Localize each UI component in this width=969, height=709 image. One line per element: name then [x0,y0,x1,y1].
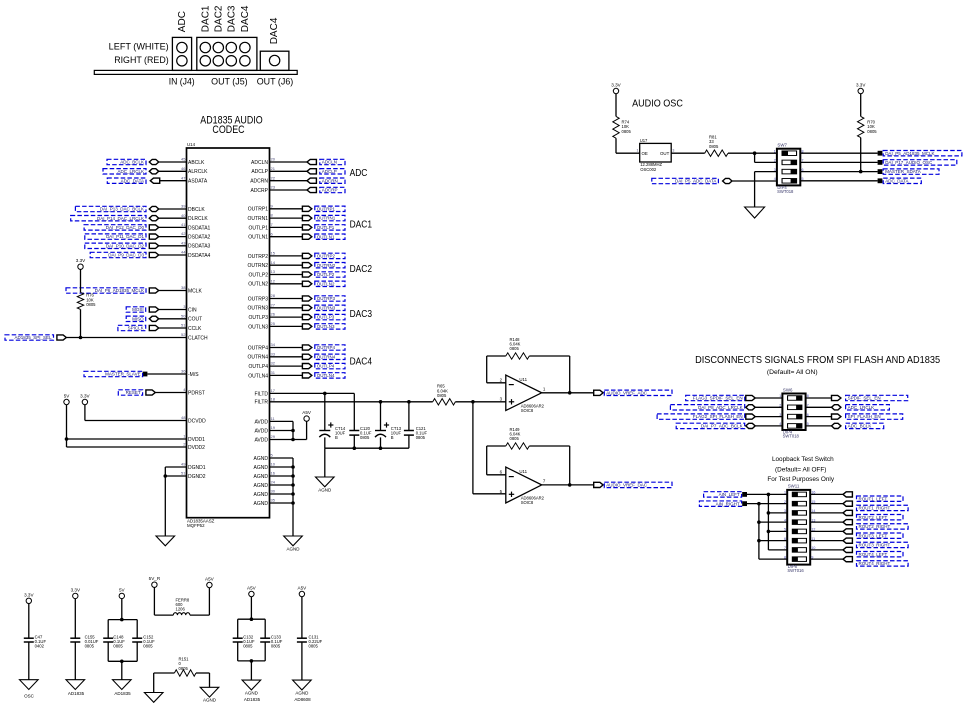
svg-text:OUTRP1: OUTRP1 [248,207,269,213]
svg-text:39: 39 [181,204,186,209]
svg-text:B: B [335,435,338,440]
svg-text:DAC1: DAC1 [350,219,373,230]
svg-text:OUTRP1: OUTRP1 [317,206,336,211]
svg-text:AVDD: AVDD [254,437,268,443]
svg-text:A5V: A5V [298,586,308,591]
svg-text:MOSI: MOSI [132,307,144,312]
svg-text:DAI_P8_ADC_LRCLK: DAI_P8_ADC_LRCLK [698,405,743,410]
svg-text:-M/S: -M/S [188,372,199,378]
svg-text:DLRCLK: DLRCLK [188,216,208,222]
svg-text:5V_R: 5V_R [149,576,161,581]
svg-text:29: 29 [271,434,276,439]
svg-text:DAI_P10_DAC_D2: DAI_P10_DAC_D2 [106,243,145,248]
svg-text:AD1835: AD1835 [68,691,85,696]
svg-text:DAI_P13_DAC_BCLK: DAI_P13_DAC_BCLK [100,207,144,212]
svg-text:ADC: ADC [177,11,188,32]
svg-text:AVDD: AVDD [254,419,268,425]
svg-text:U17: U17 [640,138,648,143]
svg-text:OSC: OSC [24,694,35,699]
svg-text:AD8608: AD8608 [294,697,311,702]
svg-text:OUT: OUT [660,151,670,156]
svg-text:AD1835: AD1835 [244,697,261,702]
svg-text:SWT018: SWT018 [777,189,794,194]
svg-text:3: 3 [672,148,674,152]
svg-text:IN (J4): IN (J4) [169,77,195,87]
svg-text:25: 25 [271,321,276,326]
svg-text:ADCLN: ADCLN [251,160,268,166]
svg-text:ADCLN: ADCLN [322,160,337,165]
svg-text:SOIC8: SOIC8 [521,408,534,413]
svg-text:OUTLN2: OUTLN2 [317,281,335,286]
svg-text:OUTLN1: OUTLN1 [248,235,268,241]
svg-text:DAC3: DAC3 [350,309,373,320]
svg-text:12: 12 [271,278,276,283]
svg-text:DISCONNECTS SIGNALS FROM SPI F: DISCONNECTS SIGNALS FROM SPI FLASH AND A… [695,354,940,366]
svg-text:DAC2: DAC2 [350,264,373,275]
svg-text:OUT (J5): OUT (J5) [211,77,248,87]
svg-text:40: 40 [181,213,186,218]
svg-text:DBCLK: DBCLK [188,207,205,213]
svg-text:0805: 0805 [271,644,281,649]
svg-text:AD1835: AD1835 [114,691,131,696]
svg-text:ROUT1_RIGHT: ROUT1_RIGHT [859,506,891,511]
svg-text:DAI_P11_DAC_D1: DAI_P11_DAC_D1 [106,234,144,239]
svg-text:OUTRN2: OUTRN2 [317,263,336,268]
svg-text:OUTRP2: OUTRP2 [248,254,269,260]
svg-text:DAC4: DAC4 [350,357,373,368]
svg-text:49: 49 [181,462,186,467]
svg-text:AGND: AGND [245,691,259,696]
svg-text:OUTLN3: OUTLN3 [248,324,268,330]
svg-text:18: 18 [271,396,276,401]
svg-text:MASTER_SLAVE: MASTER_SLAVE [105,372,140,377]
svg-text:0805: 0805 [179,666,189,671]
svg-text:OUTRN4: OUTRN4 [247,355,268,361]
svg-text:ADC_DATA: ADC_DATA [121,178,144,183]
svg-text:27: 27 [271,302,276,307]
svg-text:3.3V: 3.3V [24,592,34,597]
svg-text:44: 44 [181,250,186,255]
svg-text:CLATCH: CLATCH [188,335,208,341]
svg-text:0805: 0805 [86,302,96,307]
svg-text:DSDATA1: DSDATA1 [188,225,211,231]
svg-text:52: 52 [181,332,186,337]
svg-text:AUDIO_VREF_DAC: AUDIO_VREF_DAC [606,483,648,488]
svg-text:0805: 0805 [85,644,95,649]
svg-text:ADCLP: ADCLP [322,169,337,174]
svg-text:For Test Purposes Only: For Test Purposes Only [767,476,834,483]
svg-text:OUTRP4: OUTRP4 [317,345,336,350]
svg-text:SW6: SW6 [783,387,793,392]
svg-text:3.3V: 3.3V [80,394,90,399]
svg-text:16: 16 [271,471,276,476]
svg-text:AGND: AGND [254,456,269,462]
svg-text:OUTRN1: OUTRN1 [317,216,336,221]
svg-text:1: 1 [637,148,639,152]
svg-text:AGND: AGND [254,465,269,471]
svg-text:0805: 0805 [709,144,719,149]
svg-text:AGND: AGND [254,492,269,498]
svg-text:0805: 0805 [309,644,319,649]
svg-text:CCLK: CCLK [188,326,202,332]
svg-text:0805: 0805 [510,436,520,441]
svg-text:DAC1: DAC1 [201,5,212,32]
svg-text:23: 23 [271,185,276,190]
svg-text:(Default= All OFF): (Default= All OFF) [775,467,826,474]
svg-text:ABCLK: ABCLK [188,160,205,166]
svg-text:46: 46 [181,166,186,171]
svg-text:OUTLN4: OUTLN4 [317,373,335,378]
svg-text:2: 2 [774,159,776,163]
svg-text:SOIC8: SOIC8 [521,500,534,505]
svg-text:ADC: ADC [350,168,368,179]
svg-text:CODEC: CODEC [212,124,244,136]
svg-text:DAC3: DAC3 [227,5,238,32]
svg-text:38: 38 [181,285,186,290]
svg-text:SPI_FLASH_EN: SPI_FLASH_EN [848,414,881,419]
svg-text:ADCRN: ADCRN [322,178,338,183]
svg-text:0402: 0402 [35,644,45,649]
svg-text:ADC_BCLK: ADC_BCLK [120,160,144,165]
svg-text:AUDIO OSC: AUDIO OSC [632,97,683,109]
svg-text:AD1835_SPI_SEL: AD1835_SPI_SEL [14,335,52,340]
svg-text:26: 26 [271,312,276,317]
svg-text:14: 14 [271,260,276,265]
svg-text:33: 33 [271,351,276,356]
svg-text:OUTLP2: OUTLP2 [317,272,335,277]
svg-text:OUTLP1: OUTLP1 [317,225,335,230]
svg-text:5V: 5V [64,394,71,399]
svg-text:ROUT3_LEFT: ROUT3_LEFT [859,533,888,538]
svg-text:DAI_P5_ADC_DATA: DAI_P5_ADC_DATA [675,179,716,184]
svg-text:FLAG2_SPI_FLASH_EN: FLAG2_SPI_FLASH_EN [693,414,743,419]
svg-text:35: 35 [271,498,276,503]
svg-text:ALRCLK: ALRCLK [188,169,208,175]
svg-text:OUTLP3: OUTLP3 [317,315,335,320]
svg-text:DAI_P9_DAC_D3: DAI_P9_DAC_D3 [108,253,144,258]
svg-text:AGND: AGND [254,474,269,480]
svg-text:31: 31 [271,370,276,375]
svg-text:4: 4 [774,177,776,181]
svg-text:DAI_P17_AUDIO_OSC: DAI_P17_AUDIO_OSC [885,160,933,165]
svg-text:MISO: MISO [132,316,144,321]
svg-text:OUTLN3: OUTLN3 [317,324,335,329]
svg-text:47: 47 [181,175,186,180]
svg-text:SPICLK: SPICLK [128,326,144,331]
svg-text:DAC2: DAC2 [214,5,225,32]
svg-text:48: 48 [181,415,186,420]
svg-text:DGND1: DGND1 [188,465,206,471]
svg-text:3.3V: 3.3V [71,587,81,592]
svg-text:24: 24 [271,480,276,485]
svg-text:PDRST: PDRST [188,390,205,396]
svg-text:AGND: AGND [318,487,332,492]
svg-text:AGND: AGND [286,546,300,551]
svg-text:0805: 0805 [622,129,632,134]
svg-text:A5V: A5V [247,586,257,591]
svg-text:AGND: AGND [295,691,309,696]
svg-text:FLAG3_SPDIF_SEL_EN: FLAG3_SPDIF_SEL_EN [693,396,743,401]
svg-text:3.3V: 3.3V [76,258,86,263]
svg-text:FILTD: FILTD [254,391,268,397]
svg-text:U11: U11 [519,377,527,382]
svg-text:DAI_P12_DAC_D0: DAI_P12_DAC_D0 [106,225,145,230]
svg-text:FILTR: FILTR [254,400,268,406]
svg-text:SWT018: SWT018 [783,433,800,438]
svg-text:SWT016: SWT016 [787,568,804,573]
svg-text:ADCRP: ADCRP [322,188,338,193]
svg-text:OUT (J6): OUT (J6) [257,77,294,87]
svg-text:OUTLP2: OUTLP2 [249,272,269,278]
svg-text:0805: 0805 [867,129,877,134]
svg-text:0805: 0805 [113,644,123,649]
svg-text:22: 22 [271,175,276,180]
svg-text:SW11: SW11 [788,484,800,489]
svg-text:RIGHT (RED): RIGHT (RED) [114,55,169,65]
svg-text:0805: 0805 [510,346,520,351]
svg-text:DSDATA4: DSDATA4 [188,253,211,259]
svg-text:OUTRP4: OUTRP4 [248,345,269,351]
svg-text:OUTRP3: OUTRP3 [317,296,336,301]
svg-text:OUTLP1: OUTLP1 [249,225,269,231]
svg-text:50: 50 [181,313,186,318]
svg-text:COUT: COUT [188,317,202,323]
svg-text:DVDD2: DVDD2 [188,445,205,451]
svg-text:B: B [391,435,394,440]
svg-text:OUTRP2: OUTRP2 [317,254,336,259]
svg-text:OUTLN2: OUTLN2 [248,282,268,288]
svg-text:OUTRP3: OUTRP3 [248,296,269,302]
svg-text:OUTRN2: OUTRN2 [247,263,268,269]
svg-text:CIN: CIN [188,307,197,313]
svg-text:AGND: AGND [254,501,269,507]
svg-text:51: 51 [181,323,186,328]
svg-text:Loopback Test Switch: Loopback Test Switch [772,456,834,463]
svg-text:51: 51 [181,471,186,476]
svg-text:20: 20 [271,157,276,162]
svg-text:ROUT3_RIGHT: ROUT3_RIGHT [859,543,891,548]
svg-text:41: 41 [181,222,186,227]
svg-text:1: 1 [774,149,776,153]
svg-text:OUTRN3: OUTRN3 [317,305,336,310]
svg-text:28: 28 [271,293,276,298]
svg-text:5V: 5V [119,587,126,592]
svg-text:U14: U14 [187,142,196,147]
svg-text:0805: 0805 [243,644,253,649]
svg-text:ADC_LRCLK: ADC_LRCLK [848,405,875,410]
svg-text:DSDATA2: DSDATA2 [188,235,211,241]
svg-text:42: 42 [181,231,186,236]
svg-text:OUTRN1: OUTRN1 [247,216,268,222]
svg-text:ROUT2_LEFT: ROUT2_LEFT [859,515,888,520]
svg-text:DCVDD: DCVDD [188,418,206,424]
svg-text:MASTER_SDATA: MASTER_SDATA [885,169,921,174]
svg-text:0805: 0805 [437,393,447,398]
svg-text:DAC4: DAC4 [269,17,280,44]
svg-text:ADCRP: ADCRP [250,188,268,194]
svg-text:OUTLN4: OUTLN4 [248,373,268,379]
svg-text:45: 45 [181,157,186,162]
svg-text:DVDD1: DVDD1 [188,437,205,443]
svg-text:3: 3 [774,168,776,172]
svg-text:DAI_P14_DAC_LRCLK: DAI_P14_DAC_LRCLK [97,216,144,221]
svg-text:AUDIO_VREF_ADC: AUDIO_VREF_ADC [606,390,648,395]
svg-text:SW7: SW7 [777,143,787,148]
svg-text:U11: U11 [519,469,527,474]
svg-text:30: 30 [271,489,276,494]
svg-text:A5V: A5V [302,410,312,415]
svg-text:OUTLN1: OUTLN1 [317,234,335,239]
svg-text:DAI_P5_AD1835_MCLK: DAI_P5_AD1835_MCLK [885,151,934,156]
svg-text:3.3V: 3.3V [611,83,621,88]
svg-text:ASDATA: ASDATA [188,179,208,185]
svg-text:DSDATA3: DSDATA3 [188,244,211,250]
svg-text:OSC002: OSC002 [640,167,657,172]
svg-text:ADC_DATA: ADC_DATA [885,178,908,183]
svg-text:13: 13 [271,269,276,274]
svg-text:10: 10 [271,462,276,467]
svg-text:AGND: AGND [203,698,217,703]
svg-text:19: 19 [271,425,276,430]
svg-text:21: 21 [271,166,276,171]
svg-text:ROUT1_LEFT: ROUT1_LEFT [859,496,888,501]
svg-text:3.3V: 3.3V [856,83,866,88]
svg-text:OUTLP4: OUTLP4 [249,364,269,370]
svg-text:OUTRN3: OUTRN3 [247,306,268,312]
svg-text:DAI_P6_AD1835_MCLK: DAI_P6_AD1835_MCLK [95,288,144,293]
svg-text:MQFP52: MQFP52 [187,523,205,528]
svg-text:DGND2: DGND2 [188,474,206,480]
svg-text:OUTLP4: OUTLP4 [317,364,335,369]
svg-text:ADCLP: ADCLP [251,169,268,175]
svg-text:ADCRN: ADCRN [250,179,268,185]
svg-text:ROUT4_RIGHT: ROUT4_RIGHT [859,561,891,566]
svg-text:OE: OE [642,151,648,156]
svg-text:1206: 1206 [176,607,186,612]
svg-text:32: 32 [271,361,276,366]
svg-text:36: 36 [181,369,186,374]
svg-text:AIN_RIGHT: AIN_RIGHT [716,501,740,506]
svg-text:DAC4: DAC4 [240,5,251,32]
svg-text:OUTLP3: OUTLP3 [249,315,269,321]
svg-text:OUTRN4: OUTRN4 [317,354,336,359]
svg-text:RESET: RESET [126,390,141,395]
svg-text:0805: 0805 [360,435,370,440]
svg-text:ADC_BCLK: ADC_BCLK [848,424,872,429]
svg-text:34: 34 [271,342,276,347]
svg-text:AGND: AGND [254,483,269,489]
svg-text:DAI_P7_ADC_BCLK: DAI_P7_ADC_BCLK [701,424,743,429]
svg-text:15: 15 [271,251,276,256]
svg-text:LEFT (WHITE): LEFT (WHITE) [109,42,169,52]
svg-text:0805: 0805 [143,644,153,649]
svg-text:ADC_LRCLK: ADC_LRCLK [117,169,144,174]
svg-text:43: 43 [181,240,186,245]
svg-text:0805: 0805 [416,435,426,440]
svg-text:ROUT4_LEFT: ROUT4_LEFT [859,552,888,557]
svg-text:SPDIF_SEL_EN: SPDIF_SEL_EN [848,396,881,401]
svg-text:MCLK: MCLK [188,288,203,294]
svg-text:17: 17 [271,388,276,393]
svg-text:AIN_LEFT: AIN_LEFT [719,492,740,497]
svg-text:(Default= All ON): (Default= All ON) [767,369,818,376]
svg-text:ROUT2_RIGHT: ROUT2_RIGHT [859,524,891,529]
svg-text:A5V: A5V [205,577,215,582]
svg-text:AVDD: AVDD [254,428,268,434]
